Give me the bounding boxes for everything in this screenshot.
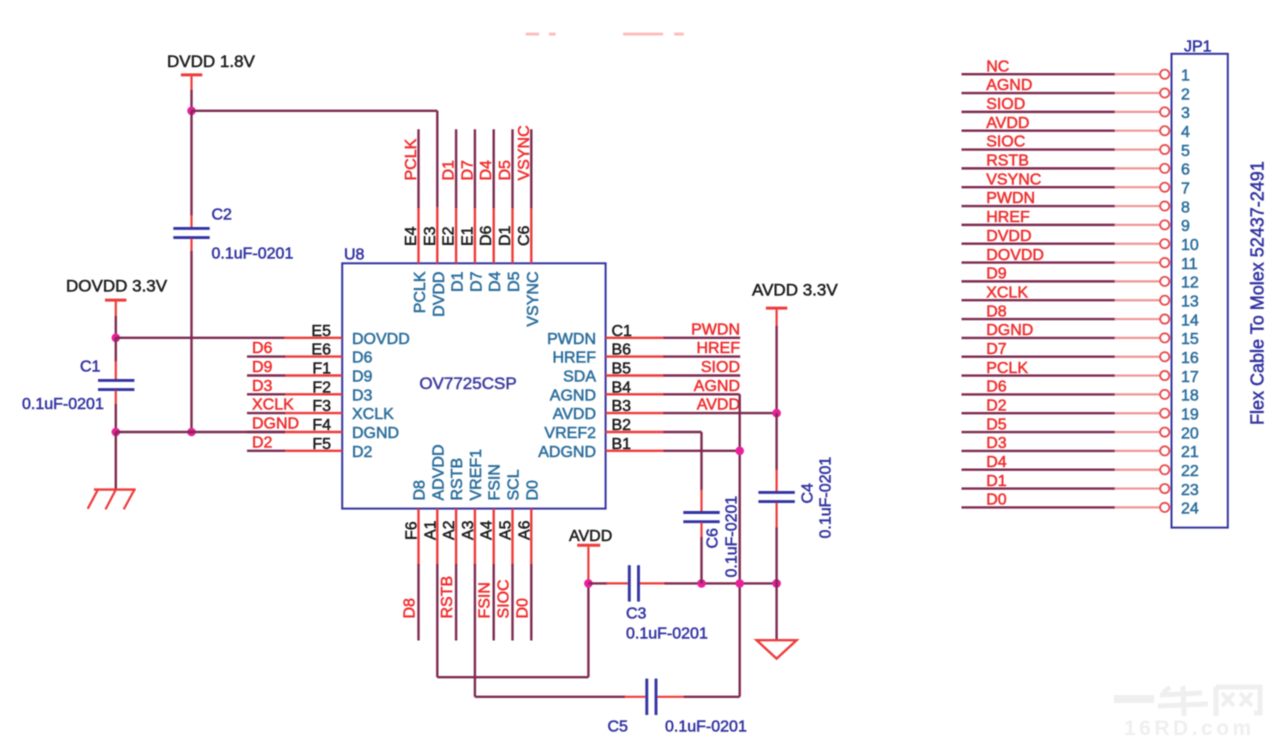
svg-text:DOVDD: DOVDD	[986, 247, 1044, 264]
pin B6 (HREF) right	[552, 340, 740, 367]
capacitor C1	[22, 359, 134, 414]
svg-text:D2: D2	[986, 397, 1007, 414]
pin C6 (VSYNC) top	[516, 125, 542, 326]
svg-text:F3: F3	[312, 398, 331, 415]
svg-text:18: 18	[1181, 388, 1199, 405]
pin B4 (AGND) right	[550, 378, 740, 405]
svg-text:D7: D7	[459, 160, 476, 181]
wire D0 net stub	[530, 564, 532, 641]
JP1 pin 3 (SIOD) wire	[962, 96, 1191, 122]
svg-text:D3: D3	[352, 387, 373, 404]
JP1 pin 8 (PWDN) wire	[962, 190, 1191, 216]
svg-text:OV7725CSP: OV7725CSP	[419, 374, 516, 393]
svg-text:2: 2	[1181, 86, 1190, 103]
svg-text:E4: E4	[403, 226, 420, 246]
svg-text:D9: D9	[352, 369, 373, 386]
svg-text:AVDD 3.3V: AVDD 3.3V	[752, 281, 838, 300]
svg-text:5: 5	[1181, 143, 1190, 160]
svg-text:D5: D5	[497, 160, 514, 181]
svg-text:D8: D8	[986, 303, 1007, 320]
JP1 pin 2 (AGND) wire	[962, 77, 1191, 103]
svg-text:B2: B2	[612, 417, 632, 434]
svg-text:DOVDD: DOVDD	[352, 331, 410, 348]
power symbol DOVDD 3.3V	[66, 277, 168, 318]
svg-text:FSIN: FSIN	[477, 582, 494, 618]
wire DGND down to ground	[115, 432, 117, 490]
svg-text:20: 20	[1181, 425, 1199, 442]
svg-text:DGND: DGND	[352, 425, 399, 442]
svg-text:D1: D1	[450, 271, 467, 292]
svg-text:D9: D9	[252, 359, 273, 376]
svg-text:D1: D1	[986, 473, 1007, 490]
JP1 pin 5 (SIOC) wire	[962, 134, 1191, 160]
svg-text:F6: F6	[404, 521, 421, 540]
JP1 pin 24 (D0) wire	[962, 492, 1199, 518]
power symbol DVDD 1.8V	[167, 52, 256, 91]
svg-text:C6: C6	[516, 225, 533, 246]
svg-text:24: 24	[1181, 501, 1199, 518]
svg-text:SDA: SDA	[563, 369, 596, 386]
svg-text:AGND: AGND	[550, 387, 596, 404]
svg-text:0.1uF-0201: 0.1uF-0201	[818, 457, 835, 539]
node main line junction at AVDD rail	[772, 579, 781, 588]
capacitor C3	[626, 565, 708, 642]
svg-text:FSIN: FSIN	[487, 464, 504, 500]
svg-text:B5: B5	[612, 361, 632, 378]
svg-text:RSTB: RSTB	[439, 576, 456, 619]
svg-text:AGND: AGND	[986, 77, 1032, 94]
wire SIOD net	[664, 374, 741, 376]
wire C3 right to junctions	[640, 582, 777, 584]
JP1 pin 4 (AVDD) wire	[962, 115, 1191, 141]
svg-text:Flex Cable To Molex 52437-2491: Flex Cable To Molex 52437-2491	[1248, 161, 1268, 425]
svg-text:D6: D6	[352, 350, 373, 367]
svg-text:D4: D4	[986, 454, 1007, 471]
pin A5 (SCL) bottom	[496, 469, 523, 618]
svg-text:16: 16	[1181, 350, 1199, 367]
node AVDD junction (main line)	[584, 579, 593, 588]
svg-text:0.1uF-0201: 0.1uF-0201	[212, 246, 294, 263]
svg-text:12: 12	[1181, 275, 1199, 292]
svg-text:PCLK: PCLK	[403, 138, 420, 180]
wire SIOC net stub	[511, 564, 513, 641]
wire AGND net to vertical	[664, 393, 740, 395]
svg-text:VSYNC: VSYNC	[516, 125, 533, 180]
svg-text:VREF1: VREF1	[468, 449, 485, 501]
JP1 pin 20 (D5) wire	[962, 416, 1199, 442]
svg-text:C3: C3	[626, 606, 647, 623]
svg-text:D2: D2	[252, 434, 273, 451]
pin B3 (AVDD) right	[553, 397, 740, 424]
svg-text:C5: C5	[608, 719, 629, 736]
pin F1 (D9) left	[247, 359, 373, 386]
svg-text:F5: F5	[312, 436, 331, 453]
svg-text:17: 17	[1181, 369, 1199, 386]
svg-text:A2: A2	[441, 520, 458, 540]
svg-text:DOVDD 3.3V: DOVDD 3.3V	[66, 277, 168, 296]
svg-text:C4: C4	[800, 483, 817, 504]
svg-text:D5: D5	[986, 416, 1007, 433]
svg-text:D6: D6	[986, 379, 1007, 396]
svg-text:D7: D7	[986, 341, 1007, 358]
JP1 pin 23 (D1) wire	[962, 473, 1199, 499]
wire DVDD junction down to C2	[190, 111, 192, 228]
svg-text:E6: E6	[311, 342, 331, 359]
JP1 pin 21 (D3) wire	[962, 435, 1199, 461]
JP1 pin 22 (D4) wire	[962, 454, 1199, 480]
pin F3 (XCLK) left	[247, 397, 394, 424]
wire DOVDD vertical to junction	[115, 316, 117, 338]
pin D6 (D4) top	[478, 129, 504, 292]
svg-text:0.1uF-0201: 0.1uF-0201	[665, 719, 747, 736]
wire VREF1 pin A3 down to C5	[474, 564, 476, 697]
power symbol AVDD 3.3V	[752, 281, 838, 328]
svg-text:E5: E5	[311, 323, 331, 340]
svg-text:B6: B6	[612, 342, 632, 359]
svg-text:C1: C1	[612, 323, 633, 340]
pin E2 (D1) top	[441, 129, 467, 292]
capacitor C2	[173, 207, 293, 263]
svg-text:A6: A6	[516, 520, 533, 540]
svg-text:D9: D9	[986, 266, 1007, 283]
svg-text:B1: B1	[612, 436, 632, 453]
svg-text:HREF: HREF	[986, 209, 1030, 226]
svg-text:HREF: HREF	[552, 350, 596, 367]
svg-text:AVDD: AVDD	[697, 397, 740, 414]
pin A4 (FSIN) bottom	[477, 464, 504, 618]
pin B5 (SDA) right	[563, 359, 740, 386]
svg-text:SIOD: SIOD	[701, 359, 740, 376]
IC U8 OV7725CSP body	[342, 247, 605, 509]
JP1 pin 17 (PCLK) wire	[962, 360, 1199, 386]
svg-text:D0: D0	[986, 492, 1007, 509]
node DVDD junction	[187, 107, 196, 116]
svg-text:10: 10	[1181, 237, 1199, 254]
pin E3 (DVDD) top	[422, 207, 448, 317]
svg-text:PWDN: PWDN	[547, 331, 596, 348]
svg-text:D0: D0	[524, 480, 541, 501]
svg-text:DGND: DGND	[252, 416, 299, 433]
svg-text:DVDD: DVDD	[986, 228, 1031, 245]
svg-text:8: 8	[1181, 199, 1190, 216]
svg-text:D7: D7	[468, 271, 485, 292]
watermark logo	[1114, 686, 1260, 739]
svg-text:E2: E2	[441, 226, 458, 246]
wire C1 bottom to DGND junction	[115, 390, 117, 432]
svg-text:PCLK: PCLK	[412, 271, 429, 313]
node DGND junction 2	[187, 428, 196, 437]
pin E4 (PCLK) top	[403, 129, 429, 313]
svg-text:PCLK: PCLK	[986, 360, 1028, 377]
svg-text:11: 11	[1181, 256, 1198, 273]
node ADGND junction	[735, 447, 744, 456]
faint pink artifact dashes (top)	[526, 33, 684, 36]
JP1 pin 16 (D7) wire	[962, 341, 1199, 367]
JP1 pin 7 (VSYNC) wire	[962, 171, 1191, 197]
pin F6 (D8) bottom	[402, 480, 429, 619]
svg-text:22: 22	[1181, 463, 1199, 480]
svg-text:ADGND: ADGND	[538, 444, 596, 461]
svg-text:JP1: JP1	[1184, 39, 1212, 56]
node main line junction at AGND vertical	[735, 579, 744, 588]
ground symbol (analog ground, triangle)	[757, 640, 797, 658]
wire DGND net to pin F4	[116, 431, 285, 433]
svg-text:0.1uF-0201: 0.1uF-0201	[22, 396, 104, 413]
pin E6 (D6) left	[247, 340, 373, 367]
svg-text:14: 14	[1181, 312, 1199, 329]
svg-text:D1: D1	[441, 160, 458, 181]
svg-text:D6: D6	[478, 225, 495, 246]
capacitor C5	[608, 679, 747, 736]
svg-text:NC: NC	[986, 58, 1009, 75]
svg-text:E3: E3	[422, 226, 439, 246]
JP1 pin 6 (RSTB) wire	[962, 153, 1191, 179]
connector JP1 body	[1172, 39, 1228, 528]
svg-text:D0: D0	[514, 598, 531, 619]
wire AGND vertical (B4/B1 to main line and C5)	[739, 394, 741, 697]
svg-text:AGND: AGND	[694, 378, 740, 395]
svg-text:F1: F1	[312, 361, 331, 378]
svg-text:AVDD: AVDD	[986, 115, 1029, 132]
svg-text:SIOC: SIOC	[986, 134, 1025, 151]
power symbol AVDD (bottom)	[569, 528, 612, 583]
wire HREF net	[664, 355, 741, 357]
wire AVDD rail to junction	[775, 326, 777, 413]
JP1 pin 10 (DVDD) wire	[962, 228, 1199, 254]
pin A6 (D0) bottom	[514, 480, 541, 619]
svg-text:D4: D4	[487, 271, 504, 292]
svg-text:ADVDD: ADVDD	[430, 444, 447, 500]
svg-text:A4: A4	[479, 520, 496, 540]
svg-text:D3: D3	[986, 435, 1007, 452]
svg-text:AVDD: AVDD	[553, 406, 596, 423]
svg-text:XCLK: XCLK	[352, 406, 394, 423]
wire C5 right to AGND vertical	[658, 696, 740, 698]
svg-text:D5: D5	[506, 271, 523, 292]
svg-text:23: 23	[1181, 482, 1199, 499]
svg-text:VSYNC: VSYNC	[525, 272, 542, 327]
svg-text:XCLK: XCLK	[986, 284, 1028, 301]
wire AVDD pin B3 to AVDD rail	[664, 412, 777, 414]
svg-text:C6: C6	[705, 528, 722, 549]
wire ADGND pin B1 to vertical	[664, 450, 740, 452]
svg-text:D2: D2	[352, 444, 373, 461]
wire DVDD net to pin E3	[192, 111, 438, 207]
wire DOVDD junction down to C1	[115, 338, 117, 380]
svg-text:PWDN: PWDN	[691, 321, 740, 338]
node main line junction at C6	[697, 579, 706, 588]
svg-text:U8: U8	[344, 247, 365, 264]
JP1 pin 9 (HREF) wire	[962, 209, 1191, 235]
svg-text:F2: F2	[312, 379, 331, 396]
wire RSTB net stub	[455, 564, 457, 641]
svg-text:DGND: DGND	[986, 322, 1033, 339]
wire FSIN net stub	[493, 564, 495, 641]
capacitor C4	[758, 457, 834, 539]
svg-text:1: 1	[1181, 68, 1190, 85]
JP1 pin 12 (D9) wire	[962, 266, 1199, 292]
pin D1 (D5) top	[497, 129, 523, 292]
svg-text:VREF2: VREF2	[544, 425, 596, 442]
svg-text:PWDN: PWDN	[986, 190, 1035, 207]
pin F4 (DGND) left	[247, 416, 399, 443]
wire AVDD node to C3	[588, 582, 627, 584]
wire C6 top lead	[700, 490, 702, 513]
wire C6 bottom to main line	[700, 522, 702, 583]
svg-text:DVDD 1.8V: DVDD 1.8V	[167, 52, 256, 71]
svg-text:B4: B4	[612, 379, 632, 396]
wire VREF2 pin B2 to C6	[664, 432, 702, 491]
pin F5 (D2) left	[247, 434, 373, 461]
svg-text:6: 6	[1181, 162, 1190, 179]
pin B1 (ADGND) right	[538, 436, 664, 461]
svg-text:XCLK: XCLK	[252, 397, 294, 414]
svg-text:9: 9	[1181, 218, 1190, 235]
svg-text:D8: D8	[412, 480, 429, 501]
svg-text:A5: A5	[498, 520, 515, 540]
svg-text:C2: C2	[212, 207, 233, 224]
svg-text:RSTB: RSTB	[449, 458, 466, 501]
wire DVDD vertical to junction	[190, 90, 192, 111]
pin A3 (VREF1) bottom	[460, 449, 485, 565]
svg-text:B3: B3	[612, 398, 632, 415]
JP1 pin 14 (D8) wire	[962, 303, 1199, 329]
svg-text:0.1uF-0201: 0.1uF-0201	[724, 496, 741, 578]
node DGND junction 1	[112, 428, 121, 437]
svg-text:19: 19	[1181, 407, 1199, 424]
svg-text:D1: D1	[497, 225, 514, 246]
svg-text:7: 7	[1181, 181, 1190, 198]
pin E1 (D7) top	[459, 129, 485, 292]
svg-text:16RD.com: 16RD.com	[1124, 717, 1255, 739]
svg-text:0.1uF-0201: 0.1uF-0201	[626, 626, 708, 643]
svg-text:D8: D8	[402, 598, 419, 619]
wire ADVDD pin A1 to AVDD node	[437, 564, 588, 677]
svg-text:F4: F4	[312, 417, 331, 434]
svg-text:15: 15	[1181, 331, 1199, 348]
svg-text:SIOD: SIOD	[986, 96, 1025, 113]
JP1 pin 1 (NC) wire	[962, 58, 1191, 84]
wire C4 bottom to main line	[775, 503, 777, 584]
svg-text:RSTB: RSTB	[986, 153, 1029, 170]
svg-text:21: 21	[1181, 444, 1199, 461]
node AVDD rail junction	[772, 409, 781, 418]
wire DOVDD to pin E5	[116, 337, 285, 339]
svg-text:E1: E1	[459, 226, 476, 246]
svg-text:A3: A3	[460, 520, 477, 540]
svg-text:13: 13	[1181, 294, 1199, 311]
svg-text:VSYNC: VSYNC	[986, 171, 1041, 188]
wire VREF1 to C5	[475, 696, 645, 698]
svg-text:4: 4	[1181, 124, 1190, 141]
svg-text:D6: D6	[252, 340, 273, 357]
wire PWDN net	[664, 337, 741, 339]
svg-text:AVDD: AVDD	[569, 528, 612, 545]
JP1 pin 11 (DOVDD) wire	[962, 247, 1198, 273]
wire C2 bottom to DGND net	[190, 239, 192, 433]
svg-text:3: 3	[1181, 105, 1190, 122]
svg-text:C1: C1	[80, 359, 101, 376]
JP1 pin 19 (D2) wire	[962, 397, 1199, 423]
pin F2 (D3) left	[247, 378, 373, 405]
svg-text:D4: D4	[478, 160, 495, 181]
wire AVDD rail down to C4	[775, 413, 777, 491]
pin A1 (ADVDD) bottom	[422, 444, 447, 565]
JP1 pin 13 (XCLK) wire	[962, 284, 1199, 310]
wire D8 net stub	[417, 564, 419, 641]
svg-text:HREF: HREF	[696, 340, 740, 357]
node DOVDD junction	[112, 334, 121, 343]
pin E5 (DOVDD) left	[284, 323, 410, 348]
capacitor C6	[683, 496, 740, 578]
pin C1 (PWDN) right	[547, 321, 740, 348]
pin B2 (VREF2) right	[544, 417, 664, 442]
svg-text:SIOC: SIOC	[496, 579, 513, 618]
JP1 pin 18 (D6) wire	[962, 379, 1199, 405]
JP1 pin 15 (DGND) wire	[962, 322, 1199, 348]
svg-text:A1: A1	[422, 520, 439, 540]
pin A2 (RSTB) bottom	[439, 458, 466, 619]
svg-text:D3: D3	[252, 378, 273, 395]
svg-text:SCL: SCL	[506, 469, 523, 500]
ground symbol (digital ground, hatched)	[88, 490, 136, 510]
JP1 note Flex Cable To Molex 52437-2491	[1248, 161, 1268, 425]
svg-text:DVDD: DVDD	[431, 272, 448, 317]
wire main line to analog ground	[775, 583, 777, 640]
